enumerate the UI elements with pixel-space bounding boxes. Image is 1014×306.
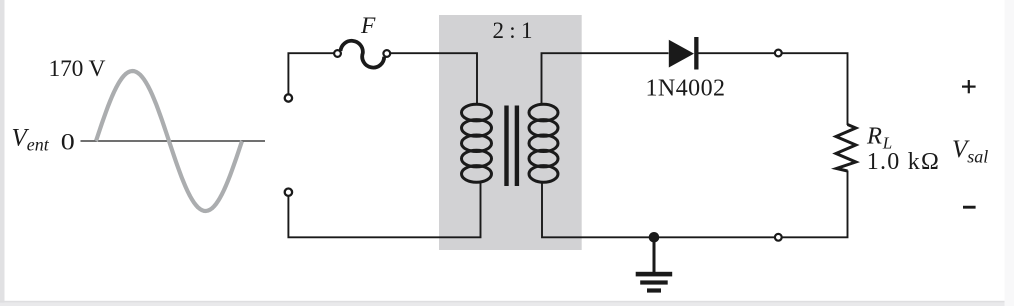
- label plus sign: [962, 80, 976, 93]
- svg-text:2 : 1: 2 : 1: [493, 18, 533, 43]
- svg-text:RL: RL: [866, 123, 892, 153]
- diode D1 cathode bar: [694, 37, 698, 70]
- wire fuse to primary top: [390, 53, 477, 104]
- wire resistor bottom to ground node: [654, 171, 848, 238]
- svg-text:170 V: 170 V: [49, 56, 106, 82]
- wire source upper terminal to fuse: [288, 53, 335, 98]
- wire secondary top to diode: [542, 53, 669, 104]
- wire diode to top-right corner: [699, 53, 848, 125]
- wire ground node to secondary bottom: [542, 182, 654, 237]
- label minus sign: [963, 206, 976, 209]
- svg-text:0: 0: [61, 129, 75, 155]
- transformer primary winding: [462, 104, 492, 182]
- terminal upper source: [285, 94, 292, 101]
- ground symbol: [636, 237, 673, 292]
- diode D1 anode triangle: [669, 40, 694, 68]
- svg-text:Vsal: Vsal: [952, 136, 988, 167]
- resistor RL zigzag: [836, 125, 856, 172]
- transformer core: [507, 106, 517, 187]
- terminal output bottom: [775, 234, 782, 241]
- terminal output top: [775, 50, 782, 57]
- svg-text:1.0 kΩ: 1.0 kΩ: [867, 149, 939, 175]
- transformer shading box: [439, 15, 582, 250]
- page bottom edge line: [0, 301, 1014, 303]
- junction dot ground node: [649, 232, 660, 243]
- transformer secondary winding: [529, 104, 558, 182]
- sine axis line: [81, 140, 266, 142]
- svg-text:1N4002: 1N4002: [646, 76, 726, 102]
- wire primary bottom to source lower terminal: [288, 182, 480, 237]
- svg-text:Vent: Vent: [12, 124, 50, 154]
- page left edge strip: [0, 0, 5, 306]
- svg-text:F: F: [360, 13, 376, 39]
- fuse F: [334, 41, 390, 68]
- page right edge strip: [1005, 0, 1014, 306]
- input sine wave: [96, 71, 242, 211]
- terminal lower source: [285, 189, 292, 196]
